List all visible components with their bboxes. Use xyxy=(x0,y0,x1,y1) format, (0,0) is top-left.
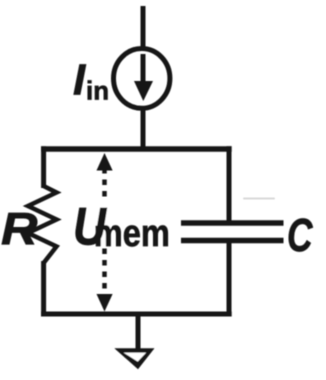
svg-text:mem: mem xyxy=(94,213,170,255)
svg-text:in: in xyxy=(86,76,109,106)
svg-text:C: C xyxy=(287,209,313,261)
svg-text:I: I xyxy=(73,56,86,105)
svg-text:R: R xyxy=(1,204,38,255)
